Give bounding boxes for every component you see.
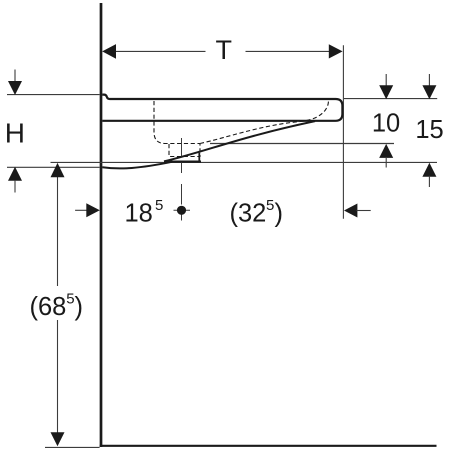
T right arrow [329, 44, 343, 58]
68.5 top arrow [51, 163, 65, 177]
basin underside slope [164, 121, 315, 161]
svg-text:10: 10 [372, 110, 400, 138]
15 dimension arrows [428, 74, 430, 86]
H dimension [14, 70, 16, 83]
label 18.5 [125, 197, 164, 228]
svg-text:5: 5 [266, 197, 274, 214]
svg-text:(32: (32 [230, 200, 267, 228]
svg-text:): ) [75, 293, 84, 321]
label 68.5 [30, 291, 84, 322]
svg-text:18: 18 [125, 200, 153, 228]
hidden drain box (dashed) [169, 144, 200, 157]
line under front edge (10-dim bottom) [210, 143, 394, 145]
dimension dot [174, 206, 191, 215]
T left arrow [102, 44, 116, 59]
basin outline [102, 95, 342, 121]
svg-text:T: T [216, 35, 233, 65]
drain plate base [164, 161, 201, 163]
32.5 arrow [344, 204, 357, 218]
32.5 dimension [230, 197, 284, 228]
10 dimension arrows [385, 74, 387, 86]
H top arrow [8, 81, 22, 95]
wall [100, 3, 103, 447]
T dimension line [116, 50, 329, 52]
hidden bowl interior slope (dashed) [200, 100, 329, 143]
vertical extension line at basin front [342, 45, 344, 218]
label H [5, 117, 25, 148]
extension line top-left (lip level) [7, 94, 100, 96]
svg-text:15: 15 [415, 116, 443, 144]
ground extension line [45, 446, 100, 448]
label 15 [415, 116, 443, 144]
extension line top-right (surface level) [344, 98, 437, 100]
68.5 dimension line [57, 176, 59, 433]
18.5 arrow [86, 203, 100, 217]
svg-text:5: 5 [155, 197, 163, 214]
svg-text:H: H [5, 117, 25, 148]
basin underside curve at wall [102, 162, 172, 169]
label T [216, 35, 233, 65]
label 10 [372, 110, 400, 138]
svg-text:(68: (68 [30, 293, 67, 321]
extension line bottom-left (underside at wall) [7, 166, 100, 168]
H bottom arrow [8, 167, 22, 181]
floor [100, 445, 437, 447]
svg-text:5: 5 [66, 291, 74, 308]
svg-text:): ) [275, 200, 284, 228]
long baseline (drain plate bottom level) [51, 161, 438, 163]
drain centerline [181, 138, 183, 221]
18.5 dimension [75, 209, 87, 211]
68.5 bottom arrow [51, 432, 65, 446]
hidden bowl rear (dashed) [154, 101, 200, 144]
drain plate right edge [198, 153, 200, 162]
